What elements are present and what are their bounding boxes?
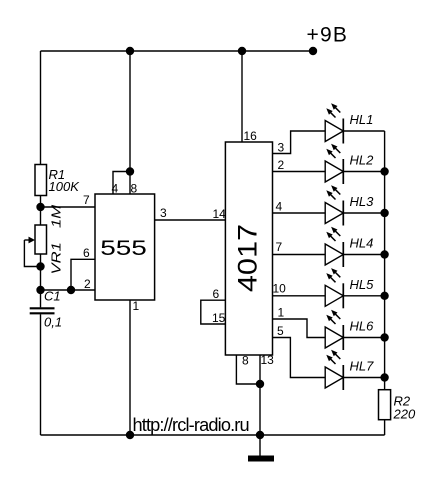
wire VR1 wiper to bottom terminal	[24, 240, 40, 267]
svg-text:HL5: HL5	[350, 277, 375, 292]
wire rail to 4017 pin 16	[241, 51, 243, 142]
wire HL2 cathode to rail	[343, 171, 384, 173]
LED HL5	[325, 268, 343, 308]
wire LED common rail	[384, 131, 386, 390]
LED HL7	[325, 350, 343, 390]
svg-text:8: 8	[242, 354, 249, 368]
svg-text:2: 2	[84, 277, 91, 291]
resistor R1	[35, 165, 47, 196]
junction on rail above 4017	[238, 47, 246, 55]
svg-text:7: 7	[276, 240, 283, 254]
svg-text:4017: 4017	[233, 224, 263, 292]
wire 4017 pin 3 to HL1	[273, 131, 326, 154]
LED HL3	[325, 185, 343, 225]
svg-text:15: 15	[212, 311, 226, 325]
svg-text:4: 4	[276, 200, 283, 214]
junction node pin7/R1/VR1	[36, 203, 44, 211]
svg-text:8: 8	[131, 182, 138, 196]
svg-text:3: 3	[160, 206, 167, 220]
junction HL3 rail	[380, 209, 388, 217]
junction HL4 rail	[380, 250, 388, 258]
wire 4017 pin 1 to HL6	[273, 319, 326, 338]
wire 4017 pin 13 to ground	[259, 355, 261, 435]
op-amp timer U1 555 body	[95, 194, 155, 300]
junction HL5 rail	[380, 292, 388, 300]
junction HL7 rail	[380, 373, 388, 381]
junction HL2 rail	[380, 167, 388, 175]
svg-text:4: 4	[112, 182, 119, 196]
wire 555 pin 2	[41, 289, 96, 291]
svg-text:HL1: HL1	[350, 112, 374, 127]
wire rail to 555 pin 8	[129, 51, 131, 194]
svg-text:16: 16	[244, 129, 258, 143]
junction on rail above 555	[126, 47, 134, 55]
wire +9V top power rail	[41, 50, 314, 52]
LED HL4	[325, 227, 343, 267]
svg-text:http://rcl-radio.ru: http://rcl-radio.ru	[133, 415, 249, 435]
wire 555 pin 4 bracket	[113, 172, 130, 195]
svg-text:HL6: HL6	[350, 319, 375, 334]
svg-text:HL3: HL3	[350, 194, 375, 209]
junction VR1 wiper tie	[36, 262, 44, 270]
svg-text:HL4: HL4	[350, 236, 374, 251]
svg-text:0,1: 0,1	[44, 315, 62, 330]
potentiometer VR1	[35, 225, 47, 254]
junction ground at bottom rail	[256, 431, 264, 439]
wire 4017 pin 4 to HL3	[273, 212, 326, 214]
svg-text:220: 220	[393, 407, 416, 422]
wire 4017 pin 7 to HL4	[273, 254, 326, 256]
wire R2 to ground rail	[384, 420, 386, 435]
svg-text:100K: 100K	[49, 179, 81, 194]
wire 555 pin 1 to ground rail	[129, 300, 131, 435]
LED HL6	[325, 310, 343, 350]
svg-text:2: 2	[278, 158, 285, 172]
svg-text:10: 10	[273, 282, 287, 296]
junction pins 4-8	[126, 167, 134, 175]
capacitor C1	[30, 308, 55, 313]
wire R1 bottom to VR1 top	[40, 196, 42, 226]
wire 555 pin 7	[41, 206, 96, 208]
wire HL4 cathode to rail	[343, 254, 384, 256]
svg-text:6: 6	[213, 287, 220, 301]
junction HL6 rail	[380, 333, 388, 341]
wire 555 pin 6 branch	[71, 259, 95, 290]
svg-text:1: 1	[133, 299, 140, 313]
junction pin2/C1	[36, 286, 44, 294]
svg-text:3: 3	[278, 141, 285, 155]
wire 555 pin 3 to 4017 pin 14	[155, 219, 226, 221]
wire HL1 cathode to rail	[343, 130, 384, 132]
svg-text:5: 5	[277, 324, 284, 338]
svg-text:HL7: HL7	[350, 359, 375, 374]
wire 4017 pin 6-15 tie bracket	[201, 300, 226, 324]
wire 4017 pin 8 bracket	[236, 355, 260, 384]
wire 4017 pin 5 to HL7	[273, 338, 326, 378]
svg-text:HL2: HL2	[350, 153, 375, 168]
wire VR1 bottom to C1	[40, 254, 42, 307]
svg-text:VR1: VR1	[49, 242, 64, 274]
wire from rail down to R1	[40, 51, 42, 165]
wire HL6 cathode to rail	[343, 337, 384, 339]
svg-text:C1: C1	[44, 289, 61, 304]
svg-text:13: 13	[261, 353, 275, 367]
wire HL3 cathode to rail	[343, 212, 384, 214]
resistor R2	[379, 390, 391, 420]
wire HL5 cathode to rail	[343, 295, 384, 297]
node +9V terminal dot	[309, 47, 317, 55]
junction pin1 at bottom rail	[126, 431, 134, 439]
svg-text:1: 1	[278, 306, 285, 320]
svg-text:6: 6	[83, 246, 90, 260]
wire 4017 pin 2 to HL2	[273, 171, 326, 173]
svg-text:+9В: +9В	[307, 24, 349, 47]
svg-text:7: 7	[83, 193, 90, 207]
VR1 wiper arrow	[24, 239, 31, 241]
wire bottom ground rail	[41, 434, 385, 436]
wire C1 bottom to ground rail	[40, 314, 42, 435]
junction pin6 branch	[67, 286, 75, 294]
wire 4017 pin 10 to HL5	[273, 295, 326, 297]
ground symbol	[248, 435, 274, 462]
junction pin8-pin13	[256, 380, 264, 388]
svg-text:1M: 1M	[49, 204, 64, 228]
counter U2 4017 body	[225, 142, 272, 355]
wire HL7 cathode to rail	[343, 377, 384, 379]
LED HL2	[325, 144, 343, 184]
svg-text:14: 14	[213, 207, 227, 221]
svg-text:555: 555	[100, 236, 147, 260]
LED HL1	[325, 103, 343, 143]
